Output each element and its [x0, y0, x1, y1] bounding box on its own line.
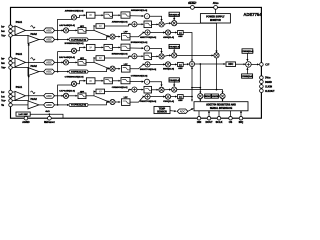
wire down to multiplier VxI C	[94, 96, 109, 102]
svg-text:ABS: ABS	[178, 99, 183, 102]
multiplier C VA gain	[172, 87, 177, 92]
sqrt block C	[144, 79, 149, 84]
wire CFDEN up to adder	[246, 68, 248, 74]
svg-text:SERIAL INTERFACE: SERIAL INTERFACE	[210, 107, 233, 110]
pin DIN	[198, 111, 200, 117]
wire ADC voltage to phase cal B	[55, 71, 69, 73]
wire WG to ABS C	[171, 96, 177, 98]
box temp sensor	[154, 106, 170, 113]
wire ADC to gain multiplier C	[55, 95, 64, 97]
wire LPF to sqrt C	[130, 80, 144, 82]
svg-text:ADC: ADC	[46, 37, 52, 41]
multiplier AVRMSGAIN	[71, 15, 76, 20]
wire up to abs box A	[94, 26, 95, 30]
LPF row2 box A	[144, 21, 152, 28]
wire PGA2 out to ADC C voltage	[39, 104, 44, 106]
node ref divider	[49, 113, 51, 115]
op-amp PGA2 phase B	[28, 68, 39, 76]
LPF1b box phase C	[121, 78, 130, 84]
svg-text:CVRMSOS[11:0]: CVRMSOS[11:0]	[131, 76, 148, 78]
op-amp PGA2 phase A	[28, 36, 39, 44]
abs box row2 A	[96, 24, 105, 29]
wire HPF out junction A	[86, 29, 94, 31]
pin IRQ	[240, 111, 242, 117]
svg-text:PGA1: PGA1	[16, 53, 23, 56]
wire adder to LPF row2 C	[137, 89, 143, 91]
wire PSM down to VA summer	[216, 22, 218, 24]
svg-text:DOUT: DOUT	[205, 121, 213, 124]
svg-text:PGA2: PGA2	[31, 98, 38, 101]
HPF box phase C	[78, 93, 86, 99]
wire VBP to PGA2	[12, 67, 28, 69]
HPF symbol phase A	[31, 26, 35, 28]
wire stadium to VxI mult C	[88, 102, 109, 105]
wire AVAG into multiplier	[173, 16, 175, 20]
multiplier VADIV	[220, 94, 225, 99]
wire ADC to gain multiplier B	[55, 61, 64, 63]
wire watt down to WDIV mult	[199, 64, 201, 93]
wire watt adder to WG mult A	[150, 32, 165, 34]
wire abs box to adder A	[105, 24, 132, 26]
register box CFNUM	[242, 49, 253, 54]
svg-text:CF: CF	[265, 63, 269, 67]
HPF box phase B	[78, 60, 86, 66]
wire watt B to summer	[183, 63, 189, 65]
pin RESET top	[191, 6, 195, 10]
LPF1 box phase B	[104, 44, 112, 50]
ABS box B	[178, 62, 184, 66]
wire VxI to LPF3 C	[115, 101, 120, 103]
wire LPF to sqrt B	[130, 47, 144, 49]
wire to x2 C	[77, 81, 86, 84]
wire sqrt down to vrms mult B	[150, 48, 162, 53]
node voltage rms tap B	[57, 71, 59, 73]
register box BVAG	[169, 44, 179, 48]
svg-text:TEMP: TEMP	[159, 109, 166, 111]
arrow VN bus into PGA2 A	[28, 43, 30, 46]
adder rms offset B	[132, 54, 137, 59]
svg-text:AWG[11:0]: AWG[11:0]	[163, 36, 174, 39]
wire to REFIN/OUT pin	[48, 114, 50, 116]
wire vrms tap up A	[58, 19, 74, 39]
pin DOUT	[208, 111, 210, 117]
wire watt adder to WG mult C	[150, 96, 165, 98]
wire ADC voltage to phase cal A	[55, 39, 69, 41]
multiplier vrms x irms C	[159, 87, 164, 92]
adder watt offset B	[145, 62, 150, 67]
svg-text:X²: X²	[99, 24, 102, 28]
svg-text:X²: X²	[99, 89, 102, 93]
node voltage rms tap A	[57, 39, 59, 41]
multiplier CVRMSGAIN	[71, 81, 76, 86]
phase cal stadium BPHCAL	[69, 70, 88, 73]
LPF1b box phase A	[121, 12, 130, 18]
IC boundary ADE7754	[11, 7, 262, 118]
wire AVDD to power supply monitor	[215, 9, 217, 13]
register box VADIV	[212, 94, 219, 98]
wire watt adder to WG mult B	[150, 63, 165, 65]
op-amp PGA1 phase B	[15, 58, 26, 67]
wire LPF to LPF B	[112, 46, 120, 48]
pin VBP	[9, 66, 13, 70]
wire PGA1 out to ADC C current	[26, 95, 44, 97]
multiplier BVRMSGAIN	[71, 48, 76, 53]
wire x2 to LPF C	[95, 80, 103, 82]
node DFC tap to registers	[199, 63, 201, 65]
svg-text:CS: CS	[229, 121, 233, 124]
multiplier current gain A	[63, 28, 68, 33]
wire VA sum down	[216, 58, 218, 90]
wire VA C join	[177, 89, 217, 91]
ADC current channel phase A	[44, 28, 55, 33]
svg-text:BVRMSGAIN[11:0]: BVRMSGAIN[11:0]	[65, 42, 84, 45]
wire watt C up to summer	[183, 96, 192, 98]
wire LPF to LPF A	[112, 14, 120, 16]
pin CS	[230, 111, 232, 117]
ADC voltage channel phase A	[44, 37, 55, 42]
svg-text:BVAG[11:0]: BVAG[11:0]	[169, 46, 180, 49]
pin AVDD top	[214, 6, 218, 10]
multiplier V x I A	[110, 34, 115, 39]
wire HPF out junction B	[86, 61, 94, 63]
svg-text:CWATTOS[15:0]: CWATTOS[15:0]	[140, 100, 157, 103]
abs box row2 C	[96, 89, 105, 94]
wire abs box to adder C	[105, 90, 132, 92]
wire ref output right	[30, 114, 63, 118]
wire gain mult to HPF box C	[69, 95, 78, 97]
svg-text:VADIV: VADIV	[212, 95, 219, 98]
multiplier WDIV	[198, 94, 203, 99]
adder rms offset A	[132, 22, 137, 27]
wire IAP to PGA1	[12, 26, 15, 28]
multiplier V x I B	[110, 66, 115, 71]
wire VN to PGA2 C input	[12, 104, 28, 106]
wire gain mult to HPF box A	[69, 29, 78, 31]
svg-text:ADE7754 REGISTERS AND: ADE7754 REGISTERS AND	[206, 104, 236, 107]
wire ADC voltage to phase cal C	[55, 104, 69, 106]
HPF symbol phase C	[31, 91, 35, 93]
pin SCLK	[218, 111, 220, 117]
ADC current channel phase C	[44, 93, 55, 98]
svg-text:CLKOUT: CLKOUT	[265, 91, 275, 93]
ADC voltage channel phase B	[44, 69, 55, 74]
multiplier CWG	[165, 94, 170, 99]
svg-text:ADC: ADC	[46, 28, 52, 32]
wire watt sum to DFC	[195, 63, 226, 65]
wire VADIV into multiplier	[218, 95, 219, 97]
svg-text:IRQ: IRQ	[239, 121, 244, 124]
svg-text:X²: X²	[89, 13, 92, 17]
wire LPF to sqrt A	[130, 15, 144, 17]
wire WG to ABS B	[171, 63, 177, 65]
svg-text:CVAG[11:0]: CVAG[11:0]	[169, 79, 180, 82]
svg-text:Φ CPHCAL[7:0]: Φ CPHCAL[7:0]	[71, 104, 86, 107]
svg-text:BAPGAIN[11:0]: BAPGAIN[11:0]	[59, 56, 75, 59]
box power supply monitor	[200, 14, 230, 23]
wire stadium to VxI mult A	[88, 37, 109, 40]
LPF3 box B	[122, 66, 131, 73]
box 2.4V reference	[16, 112, 30, 116]
wire HPF out junction C	[86, 95, 94, 97]
HPF symbol phase B	[31, 58, 35, 60]
wire gain mult to HPF box B	[69, 61, 78, 63]
svg-text:ADC: ADC	[46, 60, 52, 64]
adder CF divider	[246, 62, 252, 68]
abs box row2 B	[96, 56, 105, 61]
pin IBP	[9, 57, 13, 61]
wire up to abs box C	[94, 91, 95, 95]
svg-text:BIRMSOS[11:0]: BIRMSOS[11:0]	[112, 53, 128, 55]
wire LPF3 rise to watt adder A	[130, 33, 145, 37]
pin IAN	[9, 29, 13, 33]
pin CF	[260, 63, 264, 67]
wire x2 to LPF A	[95, 14, 103, 16]
squarer x2 phase C	[86, 78, 95, 84]
box registers and serial interface	[194, 102, 248, 111]
svg-text:ADE7754: ADE7754	[243, 12, 262, 17]
squarer x2 phase A	[86, 12, 95, 18]
wire IBP to PGA1	[12, 58, 15, 60]
wire adder to LPF row2 B	[137, 55, 143, 57]
svg-text:ABS: ABS	[178, 35, 183, 38]
LPF1 box phase A	[104, 12, 112, 18]
wire LPF3 rise to watt adder B	[130, 64, 145, 68]
svg-text:AGND: AGND	[22, 121, 30, 124]
squarer x2 phase B	[86, 44, 95, 50]
svg-text:AAPGAIN[11:0]: AAPGAIN[11:0]	[59, 24, 75, 27]
ABS box C	[178, 95, 184, 99]
multiplier V x I C	[110, 99, 115, 104]
adder rms offset C	[132, 87, 137, 92]
wire vrms tap up C	[58, 85, 74, 105]
adder VA total	[214, 53, 219, 58]
svg-text:PGA2: PGA2	[31, 33, 38, 36]
svg-text:REFIN/OUT: REFIN/OUT	[44, 121, 56, 124]
wire LPF row2 to mult C	[152, 89, 159, 91]
ADC current channel phase B	[44, 60, 55, 65]
wire watt A to summer	[183, 33, 192, 62]
wire VCP to PGA2	[12, 100, 28, 102]
wire VxI to LPF3 A	[115, 36, 120, 38]
register box CVAG	[169, 78, 179, 82]
wire stadium to VxI mult B	[88, 69, 109, 72]
pin REFIN/OUT	[48, 116, 52, 120]
svg-text:X²: X²	[89, 45, 92, 49]
pin IAP	[9, 25, 13, 29]
wire LPF row2 to mult B	[152, 55, 159, 57]
svg-text:RESET: RESET	[188, 2, 197, 5]
wire VxI to LPF3 B	[115, 68, 120, 70]
svg-text:AVDD: AVDD	[213, 2, 220, 5]
multiplier A VA gain	[172, 21, 177, 26]
wire watt cross tap	[192, 87, 200, 89]
svg-text:AIRMSOS[11:0]: AIRMSOS[11:0]	[112, 20, 128, 23]
svg-text:CVRMSGAIN[11:0]: CVRMSGAIN[11:0]	[65, 75, 84, 78]
svg-text:CWG[11:0]: CWG[11:0]	[163, 101, 174, 103]
LPF1 box phase C	[104, 78, 112, 84]
svg-text:BWG[11:0]: BWG[11:0]	[163, 69, 174, 71]
multiplier AWG	[165, 30, 170, 35]
LPF3 box C	[122, 99, 131, 106]
wire adder to CF pin	[251, 63, 259, 65]
wire VA B to summer	[177, 54, 214, 56]
svg-text:ABS: ABS	[178, 67, 183, 70]
pin AGND	[24, 116, 28, 120]
svg-text:Φ BPHCAL[7:0]: Φ BPHCAL[7:0]	[71, 70, 86, 73]
svg-text:PGA1: PGA1	[16, 86, 23, 89]
phase cal stadium APHCAL	[69, 38, 88, 41]
adder watt offset C	[145, 94, 150, 99]
LPF row2 box C	[144, 86, 152, 93]
svg-text:AWATTOS[15:0]: AWATTOS[15:0]	[140, 36, 156, 39]
HPF box phase A	[78, 28, 86, 34]
wire DFC to CF adder	[236, 63, 246, 65]
svg-text:ADC: ADC	[180, 109, 186, 113]
svg-text:CLKIN: CLKIN	[265, 87, 272, 89]
node voltage rms tap C	[57, 104, 59, 106]
svg-text:DVDD: DVDD	[265, 78, 271, 80]
register box AVAG	[169, 12, 179, 16]
pin ICN	[9, 95, 13, 99]
wire vrms tap up B	[58, 52, 74, 72]
LPF3 box A	[122, 33, 131, 40]
adder watt offset A	[145, 30, 150, 35]
adder watt total	[189, 61, 194, 66]
svg-text:WDIV: WDIV	[205, 96, 211, 98]
svg-text:CFNUM[11:0]: CFNUM[11:0]	[242, 51, 254, 53]
wire VN bus up to PGA2 A and B	[28, 44, 30, 101]
pin ICP	[9, 90, 13, 94]
svg-text:MONITOR: MONITOR	[210, 20, 221, 22]
wire ADC to gain multiplier A	[55, 29, 64, 31]
svg-text:AVRMSOS[11:0]: AVRMSOS[11:0]	[131, 9, 148, 12]
pin VCP	[9, 99, 13, 103]
svg-text:DFC: DFC	[228, 63, 233, 66]
svg-text:SCLK: SCLK	[216, 121, 223, 124]
op-amp PGA1 phase C	[15, 91, 26, 100]
wire up to abs box B	[94, 58, 95, 62]
svg-text:DGND: DGND	[265, 82, 272, 84]
wire WDIV mult to registers	[199, 99, 201, 102]
wire watt total down to registers	[191, 97, 193, 102]
svg-text:ADC: ADC	[46, 70, 52, 74]
wire to VAG multiplier C	[164, 89, 171, 91]
LPF row2 box B	[144, 53, 152, 60]
ADC temp	[177, 109, 188, 114]
multiplier current gain B	[63, 60, 68, 65]
pin CLKIN right	[260, 85, 264, 89]
pin DGND right	[260, 80, 264, 84]
svg-text:POWER SUPPLY: POWER SUPPLY	[206, 17, 225, 19]
ADC voltage channel phase C	[44, 102, 55, 107]
wire LPF row2 to mult A	[152, 23, 159, 25]
wire down to multiplier VxI B	[94, 62, 109, 68]
wire PGA2 out to ADC A voltage	[39, 39, 44, 41]
wire adder to LPF row2 A	[137, 23, 143, 25]
pin VN	[9, 103, 13, 107]
svg-text:CIRMSOS[11:0]: CIRMSOS[11:0]	[112, 87, 128, 89]
wire WG to ABS A	[171, 32, 177, 34]
multiplier vrms x irms B	[159, 54, 164, 59]
wire to x2 B	[77, 47, 86, 50]
wire BVAG into multiplier	[173, 49, 175, 53]
wire PGA2 out to ADC B voltage	[39, 71, 44, 73]
wire sqrt down to vrms mult C	[150, 82, 162, 87]
ABS box A	[178, 31, 184, 35]
wire down to multiplier VxI A	[94, 30, 109, 36]
wire abs box to adder B	[105, 56, 132, 58]
multiplier B VA gain	[172, 53, 177, 58]
wire temp sensor to ADC	[170, 110, 176, 113]
wire VA to VADIV mult	[217, 90, 223, 94]
wire sqrt down to vrms mult A	[150, 16, 162, 21]
svg-text:PGA2: PGA2	[31, 65, 38, 68]
wire VA A to summer	[177, 23, 217, 52]
wire CFNUM down to adder	[246, 53, 248, 61]
wire temp ADC to registers	[188, 109, 193, 112]
svg-text:CAPGAIN[11:0]: CAPGAIN[11:0]	[59, 89, 75, 92]
box DFC	[226, 62, 236, 67]
wire IAN to PGA1	[12, 30, 15, 32]
multiplier current gain C	[63, 93, 68, 98]
svg-text:AVAG[11:0]: AVAG[11:0]	[169, 13, 180, 16]
svg-text:AVRMSGAIN[11:0]: AVRMSGAIN[11:0]	[65, 10, 84, 13]
wire LPF3 rise to watt adder C	[130, 97, 145, 103]
op-amp PGA2 phase C	[28, 101, 39, 109]
svg-text:SENSOR: SENSOR	[157, 112, 167, 114]
sqrt block B	[144, 46, 149, 51]
register box WDIV	[205, 94, 211, 98]
multiplier vrms x irms A	[159, 22, 164, 27]
pin VAP	[9, 34, 13, 38]
pin IBN	[9, 61, 13, 65]
register box CFDEN	[242, 74, 253, 78]
wire IBN to PGA1	[12, 62, 15, 64]
sqrt block A	[144, 14, 149, 19]
svg-text:DIN: DIN	[197, 121, 202, 124]
svg-text:ADC: ADC	[46, 103, 52, 107]
multiplier BWG	[165, 62, 170, 67]
wire ICP to PGA1	[12, 91, 15, 93]
wire ICN to PGA1	[12, 95, 15, 97]
phase cal stadium CPHCAL	[69, 103, 88, 106]
wire PGA1 out to ADC A current	[26, 29, 44, 31]
wire x2 to LPF B	[95, 46, 103, 48]
LPF1b box phase B	[121, 44, 130, 50]
svg-text:X²: X²	[99, 56, 102, 60]
wire VADIV mult to registers	[222, 99, 224, 102]
pin DVDD right	[260, 76, 264, 80]
svg-text:X²: X²	[89, 79, 92, 83]
wire PGA1 out to ADC B current	[26, 61, 44, 63]
op-amp PGA1 phase A	[15, 26, 26, 35]
svg-text:2.4V REF: 2.4V REF	[18, 113, 28, 116]
svg-text:BWATTOS[15:0]: BWATTOS[15:0]	[140, 68, 157, 71]
svg-text:PGA1: PGA1	[16, 21, 23, 24]
wire WDIV into multiplier	[204, 95, 205, 97]
svg-text:BVRMSOS[11:0]: BVRMSOS[11:0]	[131, 42, 148, 44]
pin CLKOUT right	[260, 89, 264, 93]
wire LPF to LPF C	[112, 80, 120, 82]
wire VAP to PGA2	[12, 34, 28, 36]
wire to x2 A	[77, 15, 86, 17]
svg-text:4kΩ: 4kΩ	[45, 110, 49, 113]
wire ref to AGND	[25, 116, 27, 118]
wire to VAG multiplier A	[164, 23, 171, 24]
svg-text:CFDEN[11:0]: CFDEN[11:0]	[241, 76, 253, 78]
svg-text:ADC: ADC	[46, 94, 52, 98]
arrow VN bus into PGA2 B	[28, 75, 30, 78]
